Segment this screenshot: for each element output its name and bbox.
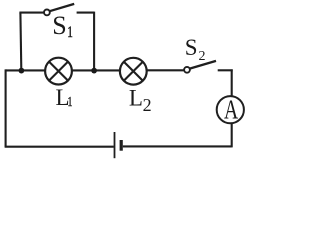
- svg-text:S: S: [185, 35, 198, 60]
- lamp L2: [120, 58, 147, 85]
- lamp L1: [45, 58, 72, 85]
- S1 blade: [50, 4, 75, 11]
- wire: main horizontal between L1 and L2: [72, 69, 120, 71]
- svg-text:S: S: [52, 11, 66, 40]
- svg-text:L: L: [129, 85, 143, 110]
- switch branch S1: right vertical riser: [93, 12, 95, 70]
- wire: right vertical lower (ammeter to bottom corner): [231, 123, 233, 147]
- wire: top fixed contact of S1 to right riser: [77, 12, 95, 14]
- battery cell: [115, 132, 122, 158]
- switch branch S1: left vertical riser: [19, 13, 22, 70]
- battery short plate (negative): [120, 140, 123, 151]
- svg-text:A: A: [224, 95, 238, 125]
- switch S2: [184, 61, 216, 73]
- node: right junction dot: [91, 68, 97, 74]
- svg-text:2: 2: [199, 49, 206, 64]
- S1 pivot contact circle: [44, 10, 50, 16]
- wire: bottom left segment to battery: [5, 146, 114, 148]
- wire: main horizontal between L2 and S2: [147, 69, 185, 71]
- switch S1: [44, 4, 74, 15]
- wire: bottom right segment from battery to right corner: [123, 145, 232, 147]
- S2 pivot contact circle: [184, 67, 190, 73]
- ammeter A: [217, 95, 244, 125]
- switch branch S1: top wire to pivot: [19, 12, 44, 14]
- wire: left outer vertical: [5, 69, 7, 146]
- S2 blade: [190, 61, 216, 69]
- wire: right vertical upper (top corner to ammeter): [231, 69, 233, 97]
- wire: top right fixed contact of S2: [218, 69, 233, 71]
- svg-text:1: 1: [67, 23, 73, 40]
- svg-text:1: 1: [68, 93, 73, 109]
- node: left junction dot: [19, 68, 25, 74]
- svg-text:2: 2: [143, 95, 152, 115]
- battery long plate (positive): [114, 132, 116, 158]
- wire: main horizontal left segment: [6, 69, 46, 71]
